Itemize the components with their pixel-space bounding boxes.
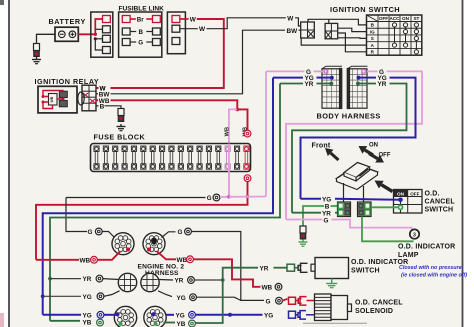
fusible link Br [130,18,136,20]
wire YR to OD connector [292,212,321,214]
wire pink to body harness G [220,196,229,198]
ignition relay internal wiring [43,91,63,97]
svg-text:OFF: OFF [379,16,388,21]
wires console switch to connectors [343,183,345,202]
wire YB engine row green [50,320,80,322]
svg-text:O.D. CANCEL: O.D. CANCEL [355,300,403,307]
svg-text:G: G [88,229,93,236]
wire YB right [164,322,176,324]
svg-text:Front: Front [312,143,331,150]
OD indicator switch box [315,258,349,279]
svg-text:ON: ON [402,16,410,21]
wire YG engine row 1 right [158,291,172,297]
wire lamp green [362,217,414,242]
ignition switch connector 2 [325,23,338,38]
engine harness connector B right [141,273,159,291]
svg-text:FUSE BLOCK: FUSE BLOCK [94,132,146,141]
wire YG row 2 right [166,314,174,316]
svg-text:BATTERY: BATTERY [49,17,86,26]
wire G pink vertical to fuse area [265,71,267,196]
svg-text:S: S [371,36,374,41]
OD connector pair right [358,202,372,217]
svg-text:ACC: ACC [390,16,401,21]
svg-text:WB: WB [177,257,188,264]
fuse block [91,144,251,172]
engine harness connector A right [143,233,165,255]
ground OD indicator switch [331,279,333,282]
svg-text:YG: YG [177,295,186,302]
underline mark [303,322,367,324]
wire YR body harness right loop [360,83,376,85]
svg-text:WB: WB [262,284,273,291]
svg-text:YG: YG [176,312,185,319]
battery ground wire [37,34,56,43]
wire YG engine row 1 [41,294,45,298]
engine harness connector C right [144,306,166,327]
ignition switch contacts ACC [394,25,396,45]
wire connector2 to switch row IG [338,28,367,31]
wire WB red to engine harness [36,182,248,260]
fusible link B [130,31,136,33]
wire W fusible to ignition switch connector [180,28,198,30]
svg-text:G: G [266,298,271,305]
svg-text:Br: Br [137,16,144,23]
wire battery positive to fusible link [78,33,95,35]
terminal WB above fuse [244,130,251,137]
svg-text:YR: YR [260,265,269,272]
svg-text:(ie closed with engine off): (ie closed with engine off) [401,273,467,279]
svg-text:YR: YR [378,81,387,88]
connector pin YR black [298,263,307,272]
svg-text:YG: YG [264,312,273,319]
svg-text:SWITCH: SWITCH [351,267,380,274]
svg-text:G: G [324,217,329,224]
wire G engine right [162,232,176,238]
wire YR engine row [48,277,52,281]
wire G red to solenoid [282,299,287,301]
svg-text:YG: YG [83,294,92,301]
svg-text:G: G [207,195,212,202]
wire YG engine row 2 blue [43,314,81,316]
svg-text:SOLENOID: SOLENOID [355,308,393,315]
svg-text:G: G [138,39,143,46]
svg-text:O.D. INDICATOR: O.D. INDICATOR [398,244,455,251]
OD connector pair left [338,202,351,217]
wire B relay to ground [96,105,99,107]
svg-text:YB: YB [177,321,186,327]
svg-text:YB: YB [83,319,92,326]
svg-text:YR: YR [322,210,331,217]
fusible link box 1 [91,12,113,57]
wire G to OD lamp [286,219,323,221]
ignition relay contacts [59,91,67,97]
svg-text:ON: ON [369,143,378,149]
svg-text:WB: WB [80,257,91,264]
svg-text:BW: BW [287,28,299,35]
ignition relay coil [49,94,58,106]
body harness connector left [322,69,342,108]
svg-text:B: B [139,29,144,36]
body harness connector right [348,69,368,108]
wire connector2 to switch row S [338,37,367,40]
fusible link at relay B [118,109,124,116]
fusible link G [130,41,136,43]
ignition relay box [38,86,77,113]
svg-text:IG: IG [370,29,375,34]
svg-text:YG: YG [83,312,92,319]
svg-text:W: W [287,15,294,22]
wire YG to OD cancel switch [301,198,322,200]
ground relay B [120,124,122,127]
wire G body harness right loop [367,70,378,72]
corner scan mark [0,0,4,5]
wire WB relay to fuse block [96,99,98,101]
wire YR body harness left [280,83,303,85]
connector pin G red [289,297,296,304]
svg-text:OFF: OFF [410,191,419,196]
wire BW relay to ignition switch connector [96,93,98,95]
ignition relay connector [82,85,96,111]
border frame left [8,0,10,327]
ignition switch connector 1 [301,22,315,38]
svg-text:ON: ON [397,191,405,196]
wire YR engine right [159,279,173,282]
terminal WB below fuse [244,175,251,182]
svg-text:YR: YR [305,81,314,88]
fusible link at battery negative [34,44,40,51]
fusible link at B ground [300,226,306,233]
wire G body harness left [266,70,305,72]
OD cancel switch box [394,190,423,214]
OD cancel solenoid coil [315,294,332,321]
wire connector2 to switch row R [338,33,367,52]
svg-text:ST: ST [413,16,419,21]
OD cancel switch contacts [400,200,402,213]
engine harness connector C left [114,306,136,327]
engine harness connector B left [118,273,136,291]
ignition switch table [367,15,422,55]
svg-text:IGNITION SWITCH: IGNITION SWITCH [330,5,400,14]
console OD switch rocker [344,163,370,178]
wire YR green vertical [50,84,280,321]
wire WB to OD cancel solenoid area [193,259,260,287]
svg-text:O.D.: O.D. [425,191,440,198]
wire YG blue vertical [43,78,273,315]
wire YG body harness left [273,77,303,79]
wire WB engine row [36,259,79,261]
OD indicator lamp [410,229,419,238]
connector pin YG blue [289,311,296,318]
svg-text:YG: YG [322,197,331,204]
wire WB red through fuse [237,109,247,130]
engine harness connector A left [112,233,134,255]
wire G from fuse block [66,197,206,199]
fusible link box 3 [167,12,185,54]
wire YG body harness right loop [360,77,376,79]
connector pin YR green [287,264,295,271]
svg-text:WB: WB [50,96,54,102]
terminal G fuse block [213,194,220,201]
svg-text:W: W [190,17,197,24]
wire connector1 to switch row B [308,19,367,25]
wire YB to OD indicator switch [195,268,258,323]
wire OD switch green to connector [371,206,399,208]
wire WB engine right [157,251,177,259]
wire W fusible to ignition relay [180,18,189,20]
svg-text:SWITCH: SWITCH [425,207,454,214]
body harness right pins [362,70,365,73]
ignition switch contacts ST [415,25,417,52]
svg-text:G: G [178,229,183,236]
ground B OD [302,240,304,243]
svg-text:W: W [199,26,206,33]
svg-text:B: B [100,103,105,110]
console pointer arrow [381,185,392,192]
wire YG to OD cancel solenoid [195,314,262,316]
junction WB [235,108,239,112]
svg-text:YR: YR [83,276,92,283]
wire WB pink over fuse block [228,144,230,172]
OD cancel solenoid body [331,296,348,320]
wire lamp pink [411,228,413,231]
svg-text:BODY HARNESS: BODY HARNESS [317,111,381,120]
wire inside fusible link box 1 [95,19,102,34]
wire G down to engine harness [66,198,87,232]
svg-text:3: 3 [413,233,416,239]
svg-text:WB: WB [224,127,230,136]
wire WB pink through fuse block [229,109,237,196]
svg-text:CANCEL: CANCEL [425,199,456,206]
wire pink below fuse block [228,171,230,197]
ground battery [36,57,38,60]
svg-text:Closed with no pressure: Closed with no pressure [399,265,462,271]
fusible link box 2 [119,12,162,57]
console OD switch 3D base [337,165,378,187]
border frame right [462,0,464,327]
ignition switch contacts ON [405,25,407,45]
svg-text:YR: YR [175,278,184,285]
wire connector1 to switch row A [301,38,366,45]
wire B to ground [303,206,324,226]
